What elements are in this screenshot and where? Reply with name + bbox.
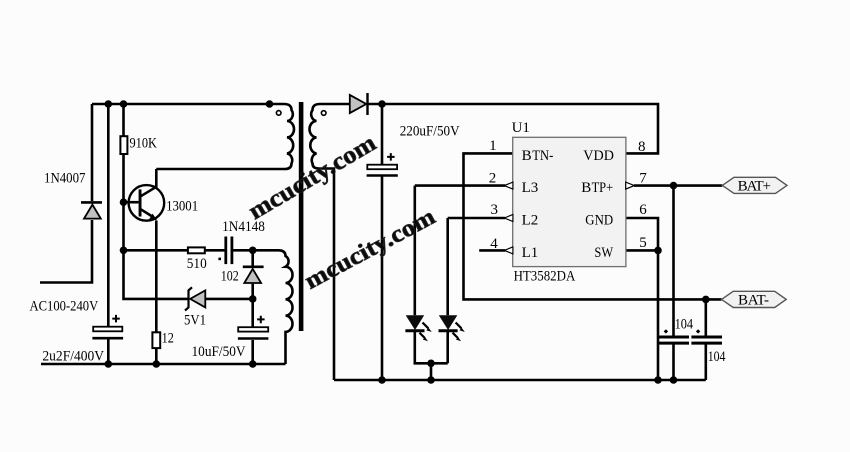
svg-text:7: 7 — [639, 170, 647, 186]
svg-text:104: 104 — [675, 316, 694, 332]
svg-text:13001: 13001 — [166, 198, 198, 214]
svg-text:5: 5 — [639, 235, 647, 251]
svg-text:510: 510 — [187, 256, 207, 272]
svg-text:10uF/50V: 10uF/50V — [192, 344, 246, 360]
svg-text:2: 2 — [489, 170, 497, 186]
svg-text:BAT+: BAT+ — [738, 178, 771, 194]
svg-text:1N4007: 1N4007 — [44, 171, 86, 187]
svg-text:SW: SW — [594, 245, 613, 261]
svg-text:6: 6 — [639, 202, 647, 218]
svg-text:VDD: VDD — [583, 148, 614, 164]
svg-text:2u2F/400V: 2u2F/400V — [42, 349, 104, 365]
svg-text:910K: 910K — [130, 136, 158, 152]
svg-text:HT3582DA: HT3582DA — [514, 268, 576, 284]
svg-text:TP+: TP+ — [592, 180, 614, 196]
svg-text:220uF/50V: 220uF/50V — [400, 124, 460, 140]
svg-text:L1: L1 — [522, 245, 539, 261]
svg-text:mcucity.com: mcucity.com — [244, 129, 381, 225]
svg-text:5V1: 5V1 — [184, 312, 206, 328]
svg-text:8: 8 — [638, 139, 646, 155]
svg-text:L3: L3 — [522, 180, 539, 196]
svg-text:AC100-240V: AC100-240V — [30, 299, 99, 315]
svg-text:102: 102 — [221, 269, 239, 285]
svg-text:B: B — [522, 148, 532, 164]
svg-text:104: 104 — [708, 349, 726, 365]
svg-text:mcucity.com: mcucity.com — [301, 204, 440, 295]
svg-text:GND: GND — [585, 213, 613, 229]
svg-text:1: 1 — [489, 138, 497, 154]
svg-text:12: 12 — [162, 330, 174, 346]
svg-text:B: B — [581, 180, 591, 196]
svg-text:BAT-: BAT- — [738, 292, 769, 308]
svg-text:U1: U1 — [512, 120, 530, 136]
svg-text:3: 3 — [491, 202, 499, 218]
svg-text:TN-: TN- — [532, 148, 553, 164]
svg-text:L2: L2 — [522, 213, 539, 229]
svg-text:4: 4 — [490, 236, 498, 252]
